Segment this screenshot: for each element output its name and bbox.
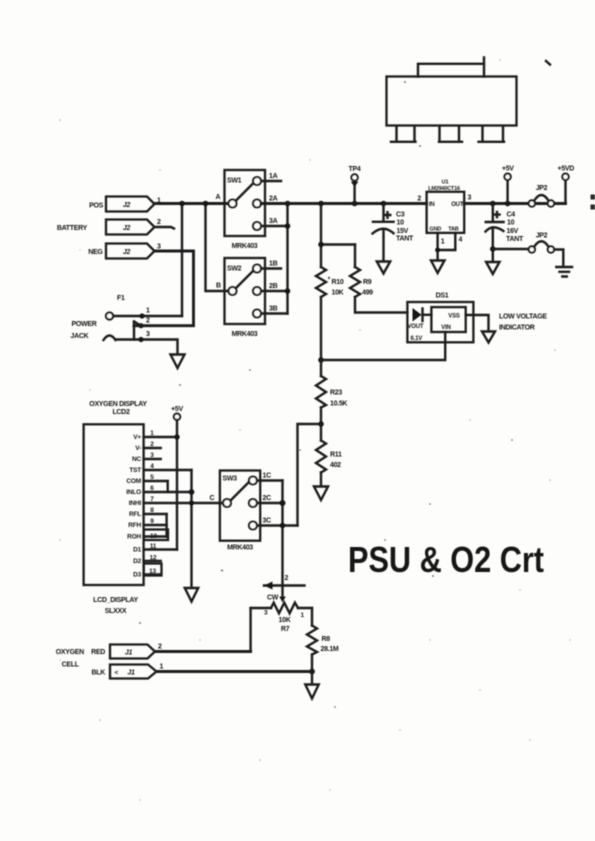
svg-text:9: 9 — [150, 518, 154, 525]
svg-text:MRK403: MRK403 — [232, 331, 258, 338]
svg-text:OUT: OUT — [451, 202, 464, 208]
svg-text:499: 499 — [362, 290, 373, 297]
svg-text:2: 2 — [150, 441, 154, 448]
svg-text:BLK: BLK — [92, 670, 106, 677]
svg-text:3: 3 — [468, 195, 472, 202]
svg-text:6: 6 — [150, 485, 154, 492]
svg-text:TAB: TAB — [448, 227, 459, 233]
svg-text:RED: RED — [91, 649, 105, 656]
svg-text:2: 2 — [417, 196, 421, 203]
svg-text:MRK403: MRK403 — [232, 243, 258, 250]
svg-text:INDICATOR: INDICATOR — [499, 325, 535, 332]
svg-text:8: 8 — [150, 507, 154, 514]
svg-text:V-: V- — [135, 445, 141, 452]
svg-text:SW2: SW2 — [227, 266, 242, 273]
svg-text:U1: U1 — [442, 180, 449, 186]
svg-text:2C: 2C — [263, 495, 272, 502]
svg-text:J1: J1 — [127, 670, 135, 677]
svg-text:10K: 10K — [332, 290, 344, 297]
svg-text:SW1: SW1 — [227, 178, 242, 185]
svg-text:SLXXX: SLXXX — [105, 608, 127, 615]
svg-text:R7: R7 — [281, 626, 290, 633]
svg-text:7: 7 — [150, 496, 154, 503]
svg-text:RFL: RFL — [129, 511, 141, 518]
svg-text:NEG: NEG — [88, 249, 103, 256]
svg-text:1: 1 — [160, 664, 164, 671]
svg-text:3A: 3A — [269, 218, 278, 225]
svg-text:COM: COM — [126, 478, 141, 485]
svg-text:10: 10 — [397, 220, 405, 227]
svg-text:12: 12 — [150, 555, 157, 562]
svg-text:GND: GND — [430, 227, 442, 233]
svg-text:J2: J2 — [123, 202, 131, 209]
svg-text:LCD2: LCD2 — [112, 409, 129, 416]
svg-text:V+: V+ — [133, 434, 141, 441]
svg-text:POWER: POWER — [72, 321, 97, 328]
svg-text:16V: 16V — [507, 228, 519, 235]
svg-text:1: 1 — [150, 430, 154, 437]
svg-text:TANT: TANT — [506, 236, 524, 243]
svg-text:1: 1 — [441, 239, 445, 246]
svg-text:JACK: JACK — [71, 333, 89, 340]
svg-text:2: 2 — [146, 318, 150, 325]
svg-text:JP2: JP2 — [536, 185, 548, 192]
svg-text:VIN: VIN — [441, 325, 450, 331]
svg-text:SW3: SW3 — [223, 476, 238, 483]
svg-text:TP4: TP4 — [349, 166, 361, 173]
svg-text:OXYGEN: OXYGEN — [56, 649, 84, 656]
svg-text:+5VD: +5VD — [558, 166, 575, 173]
svg-text:3C: 3C — [263, 518, 272, 525]
svg-text:MRK403: MRK403 — [227, 545, 253, 552]
svg-text:JP2: JP2 — [536, 233, 548, 240]
svg-text:J2: J2 — [123, 225, 131, 232]
svg-text:10K: 10K — [279, 617, 291, 624]
svg-text:+5V: +5V — [171, 406, 183, 413]
svg-text:2A: 2A — [269, 196, 278, 203]
svg-text:3: 3 — [264, 610, 268, 617]
svg-text:1B: 1B — [269, 261, 278, 268]
svg-text:DS1: DS1 — [436, 293, 449, 300]
svg-text:VOUT: VOUT — [408, 324, 424, 330]
svg-text:ROH: ROH — [127, 534, 141, 541]
svg-text:2: 2 — [285, 575, 289, 582]
svg-text:INHI: INHI — [129, 500, 142, 507]
svg-text:J2: J2 — [123, 249, 131, 256]
svg-text:BATTERY: BATTERY — [57, 225, 88, 232]
svg-text:15V: 15V — [397, 228, 409, 235]
svg-text:4: 4 — [150, 463, 154, 470]
svg-text:INLO: INLO — [126, 489, 141, 496]
svg-text:<: < — [115, 670, 119, 677]
svg-text:1: 1 — [301, 612, 305, 619]
svg-text:C4: C4 — [507, 212, 516, 219]
svg-text:A: A — [216, 194, 221, 201]
svg-text:+5V: +5V — [502, 166, 514, 173]
svg-text:11: 11 — [150, 543, 157, 550]
svg-text:J1: J1 — [125, 650, 133, 657]
svg-text:6.1V: 6.1V — [411, 336, 423, 342]
svg-text:R10: R10 — [332, 279, 344, 286]
svg-text:1A: 1A — [269, 173, 278, 180]
svg-text:10: 10 — [507, 220, 515, 227]
svg-text:28.1M: 28.1M — [321, 646, 339, 653]
svg-text:3: 3 — [157, 244, 161, 251]
svg-text:10.5K: 10.5K — [330, 401, 347, 408]
svg-text:R9: R9 — [363, 279, 372, 286]
svg-text:CW: CW — [267, 595, 279, 602]
svg-text:3B: 3B — [269, 306, 278, 313]
svg-text:13: 13 — [149, 568, 156, 575]
svg-text:IN: IN — [429, 202, 435, 208]
svg-text:LOW VOLTAGE: LOW VOLTAGE — [499, 314, 547, 321]
svg-text:3: 3 — [146, 331, 150, 338]
svg-text:R23: R23 — [330, 390, 342, 397]
svg-text:10: 10 — [150, 533, 157, 540]
svg-text:C3: C3 — [396, 212, 405, 219]
svg-text:5: 5 — [150, 474, 154, 481]
svg-text:402: 402 — [330, 462, 341, 469]
svg-text:CELL: CELL — [62, 662, 80, 669]
svg-text:C: C — [210, 495, 215, 502]
svg-text:D2: D2 — [133, 558, 141, 565]
svg-text:B: B — [216, 283, 221, 290]
svg-text:D3: D3 — [133, 572, 141, 579]
svg-text:POS: POS — [89, 203, 104, 210]
svg-text:2B: 2B — [269, 283, 278, 290]
svg-text:1: 1 — [146, 308, 150, 315]
svg-text:NC: NC — [132, 456, 141, 463]
svg-text:TST: TST — [129, 467, 141, 474]
svg-text:D1: D1 — [133, 547, 141, 554]
svg-text:2: 2 — [157, 219, 161, 226]
svg-text:R8: R8 — [322, 636, 331, 643]
svg-text:3: 3 — [150, 452, 154, 459]
svg-text:1C: 1C — [263, 473, 272, 480]
svg-text:4: 4 — [459, 237, 463, 244]
svg-text:R11: R11 — [330, 452, 342, 459]
svg-text:LCD_DISPLAY: LCD_DISPLAY — [93, 597, 138, 604]
svg-text:RFH: RFH — [128, 522, 141, 529]
svg-text:VSS: VSS — [448, 314, 460, 320]
svg-text:TANT: TANT — [396, 236, 414, 243]
svg-text:OXYGEN DISPLAY: OXYGEN DISPLAY — [89, 401, 147, 408]
svg-text:2: 2 — [158, 644, 162, 651]
svg-text:F1: F1 — [117, 295, 125, 302]
svg-text:PSU & O2 Crt: PSU & O2 Crt — [348, 539, 544, 580]
